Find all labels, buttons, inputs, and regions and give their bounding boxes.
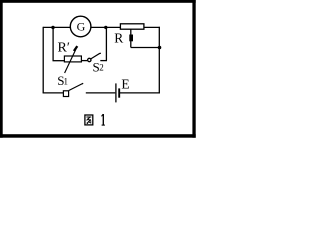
battery E short plate [118, 88, 120, 97]
svg-text:E: E [121, 76, 129, 91]
R wiper contact blob [129, 35, 133, 42]
resistor R' (rheostat box) [64, 56, 81, 62]
border frame [0, 0, 196, 138]
wire S2-branch right vertical [105, 27, 107, 60]
wire bottom rail left segment [43, 92, 64, 94]
node B junction dot (top rail right) [104, 26, 107, 29]
wire R wiper vertical [130, 29, 132, 47]
wire wiper horizontal to right rail [131, 47, 160, 49]
rheostat arrow of R' [65, 46, 78, 73]
wire right vertical [158, 27, 160, 94]
svg-text:R′: R′ [58, 41, 70, 56]
svg-text:2: 2 [99, 63, 104, 73]
battery E long plate [115, 83, 117, 102]
wire R' box to switch S2 [81, 60, 87, 62]
svg-text:1: 1 [64, 77, 69, 87]
node A junction dot (top rail left) [51, 26, 54, 29]
node C junction dot (wiper to right rail) [158, 46, 162, 50]
wire R'-branch left vertical [52, 27, 54, 60]
wire bottom rail middle segment [86, 92, 116, 94]
wire top rail right segment [144, 26, 160, 28]
wire S2 fixed contact stub [100, 60, 107, 62]
switch S1 contact square [63, 91, 68, 97]
caption digit 1 [102, 114, 105, 125]
svg-text:G: G [77, 20, 86, 34]
wire bottom rail right segment [120, 92, 160, 94]
switch S2 lever [91, 53, 101, 59]
galvanometer U1 (G meter) [70, 16, 91, 37]
caption character 图 (hand-drawn glyph) [85, 115, 93, 125]
wire top rail left segment [43, 26, 70, 28]
switch S2 pivot circle [88, 58, 91, 61]
wire top rail middle segment [91, 26, 121, 28]
wire left vertical [42, 27, 44, 93]
resistor R (box) [120, 24, 143, 29]
switch S1 lever [69, 83, 83, 90]
svg-text:R: R [114, 30, 123, 45]
wire R'-branch horizontal to box [53, 60, 65, 62]
